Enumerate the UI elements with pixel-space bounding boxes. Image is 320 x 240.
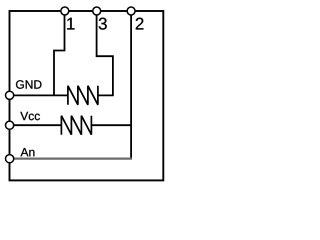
wire An row <box>10 158 132 160</box>
GND terminal <box>6 91 14 99</box>
resistor R2 <box>61 116 91 135</box>
An terminal <box>6 155 14 163</box>
wire GND row <box>10 94 68 96</box>
label pin 2 <box>136 18 144 30</box>
resistor R1 <box>68 86 98 105</box>
label pin 1 <box>67 18 74 30</box>
wire pin 2 vertical <box>130 13 132 160</box>
wire pin 3 branch <box>97 13 113 96</box>
label Vcc <box>20 112 40 120</box>
wire R2 to pin 2 <box>91 124 131 126</box>
wire pin 1 branch <box>54 13 65 96</box>
label pin 3 <box>99 18 107 30</box>
wire Vcc row <box>10 124 61 126</box>
label GND <box>16 80 41 89</box>
device outline <box>10 11 164 180</box>
pin 3 terminal <box>93 7 101 15</box>
label An <box>21 148 35 156</box>
pin 1 terminal <box>61 7 69 15</box>
pin 2 terminal <box>127 7 135 15</box>
Vcc terminal <box>6 121 14 129</box>
